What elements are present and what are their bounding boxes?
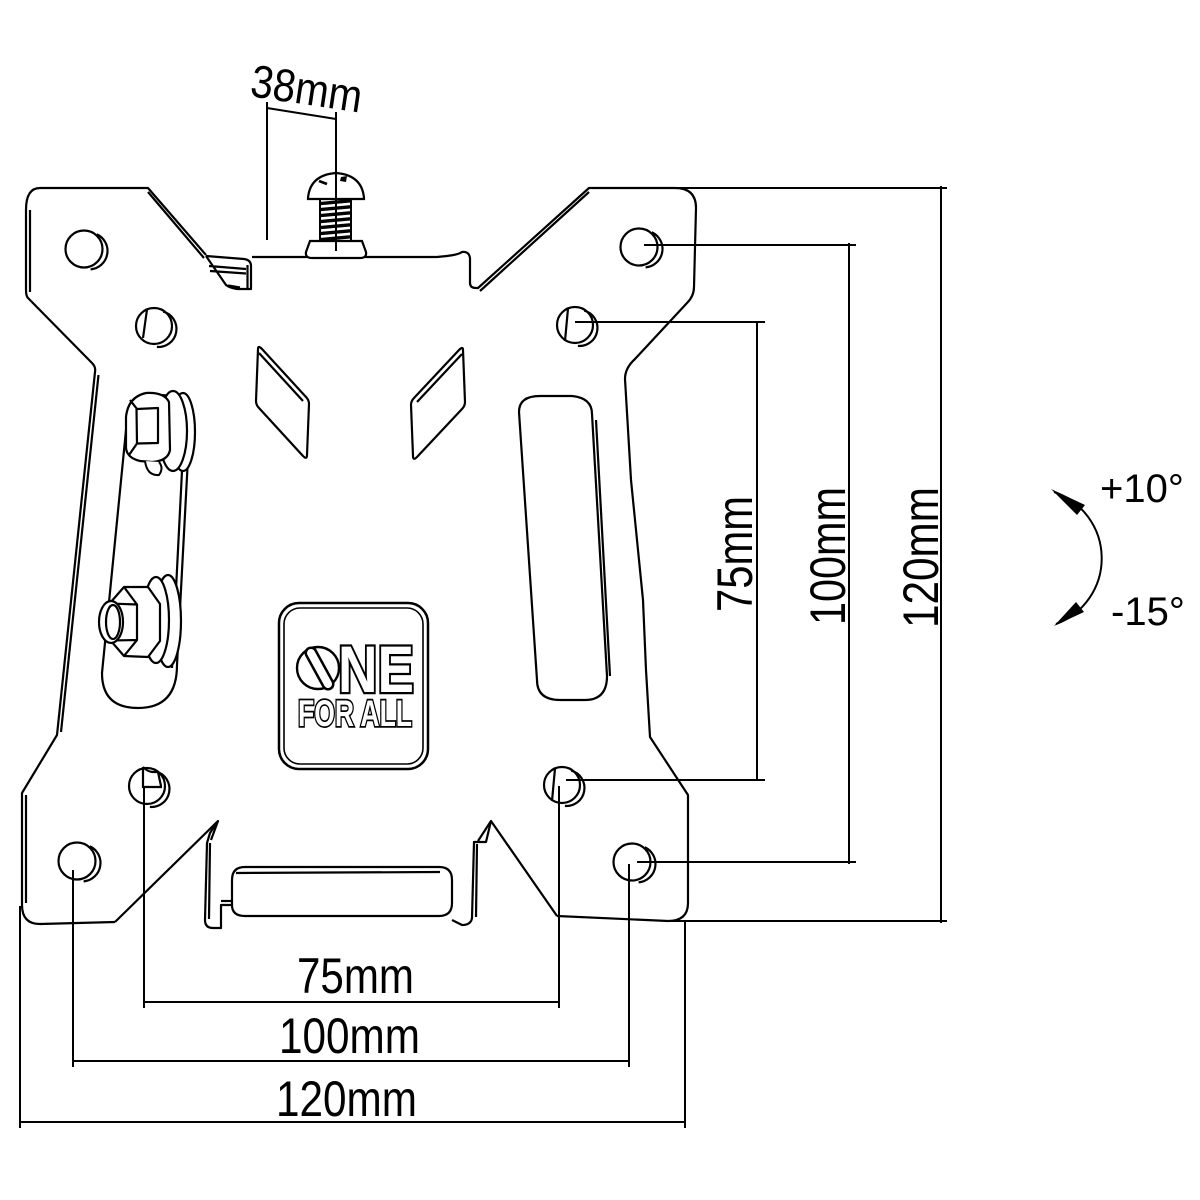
svg-text:-15°: -15° [1111, 590, 1185, 634]
svg-text:75mm: 75mm [707, 496, 763, 612]
svg-text:+10°: +10° [1100, 467, 1184, 511]
svg-text:120mm: 120mm [893, 487, 949, 628]
svg-text:75mm: 75mm [297, 948, 414, 1004]
svg-text:100mm: 100mm [800, 487, 856, 625]
svg-text:120mm: 120mm [276, 1071, 417, 1127]
svg-text:100mm: 100mm [279, 1008, 420, 1064]
svg-text:FOR ALL: FOR ALL [298, 693, 412, 734]
